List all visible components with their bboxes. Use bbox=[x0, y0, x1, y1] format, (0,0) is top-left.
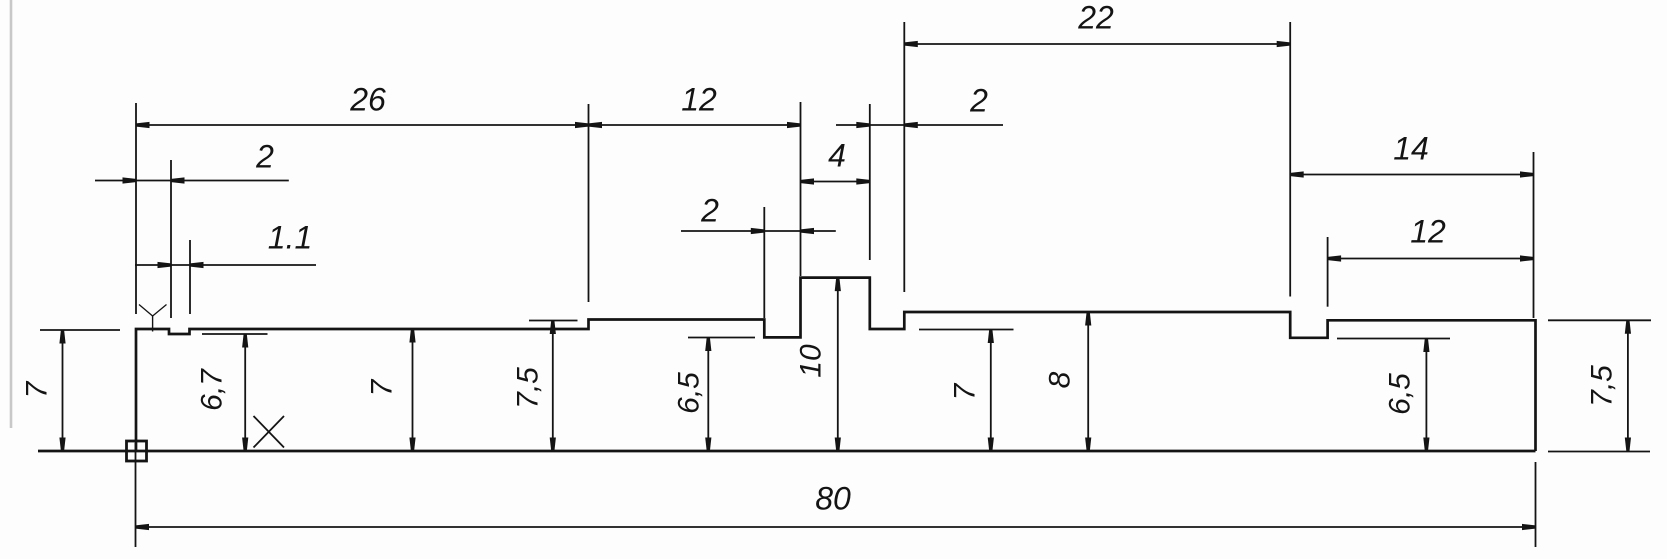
svg-text:12: 12 bbox=[681, 82, 717, 118]
dimension 6.7 bbox=[195, 334, 248, 451]
extension line x190 bbox=[189, 240, 191, 314]
svg-text:7,5: 7,5 bbox=[1585, 365, 1618, 407]
dimension 8 bbox=[1043, 312, 1091, 451]
svg-text:8: 8 bbox=[1043, 371, 1076, 388]
extension line x171 bbox=[170, 160, 172, 318]
surface mark Y bbox=[139, 305, 167, 332]
extension line x870 bbox=[869, 104, 871, 260]
dimension 2 middle bbox=[681, 193, 836, 235]
extension line x904 bbox=[903, 22, 905, 292]
svg-text:7,5: 7,5 bbox=[511, 367, 544, 409]
surface mark X bbox=[254, 416, 285, 448]
extension line for dim 7.5 right bottom bbox=[1548, 451, 1650, 453]
svg-text:7: 7 bbox=[20, 380, 53, 398]
svg-text:7: 7 bbox=[948, 382, 981, 400]
extension line x800 bbox=[800, 102, 802, 276]
dimension 6.5 right bbox=[1383, 339, 1429, 452]
extension line for dim 7.5 left bbox=[529, 320, 578, 322]
dimension 2 top middle bbox=[836, 83, 1003, 129]
svg-text:22: 22 bbox=[1077, 0, 1114, 36]
extension line x588 bbox=[588, 104, 590, 302]
dimension 7 left bbox=[20, 330, 65, 451]
svg-text:4: 4 bbox=[828, 138, 846, 174]
dimension 14 bbox=[1290, 131, 1533, 178]
extension line x1290 bbox=[1289, 22, 1291, 297]
dimension 7.5 right bbox=[1585, 320, 1631, 451]
baseline bottom edge bbox=[38, 450, 1536, 453]
dimension 7 middle bbox=[365, 329, 415, 451]
dimension 10 bbox=[794, 278, 841, 451]
extension line x1327 bbox=[1327, 237, 1329, 307]
dimension 22 bbox=[904, 0, 1290, 47]
dimension 1.1 bbox=[135, 220, 316, 269]
extension line for dim 6.7 bbox=[202, 333, 268, 335]
svg-text:2: 2 bbox=[255, 139, 274, 175]
svg-text:2: 2 bbox=[969, 83, 988, 119]
svg-text:26: 26 bbox=[349, 82, 386, 118]
svg-text:6,7: 6,7 bbox=[195, 368, 228, 411]
svg-text:10: 10 bbox=[794, 344, 827, 378]
scan artifact gray line at left edge bbox=[10, 0, 13, 428]
extension line for dim 6.5 right bbox=[1337, 338, 1450, 340]
svg-text:14: 14 bbox=[1393, 131, 1429, 167]
extension line left edge up bbox=[135, 103, 137, 314]
svg-text:80: 80 bbox=[815, 481, 851, 517]
extension line x764 bbox=[763, 207, 765, 318]
extension line right edge up bbox=[1533, 152, 1535, 318]
svg-text:1.1: 1.1 bbox=[268, 220, 312, 256]
part profile outline bbox=[136, 278, 1536, 451]
svg-text:6,5: 6,5 bbox=[672, 372, 705, 414]
dimension 26 bbox=[136, 82, 589, 129]
extension line for dim 7 left bbox=[40, 329, 120, 331]
svg-text:6,5: 6,5 bbox=[1383, 373, 1416, 415]
dimension 6.5 left bbox=[672, 338, 711, 452]
dimension 80 bbox=[136, 481, 1536, 531]
extension line for dim 6.5 left bbox=[688, 337, 755, 339]
extension line right edge down bbox=[1535, 462, 1537, 547]
extension line for dim 7.5 right top bbox=[1548, 319, 1651, 321]
dimension 2 top left bbox=[95, 139, 289, 184]
svg-text:2: 2 bbox=[700, 193, 719, 229]
extension line left edge down bbox=[135, 443, 137, 547]
dimension 12 top bbox=[589, 82, 801, 129]
svg-text:7: 7 bbox=[365, 378, 398, 396]
svg-text:12: 12 bbox=[1410, 214, 1446, 250]
extension line for dim 7 right of boss bbox=[919, 329, 1014, 331]
dimension 7.5 left bbox=[511, 321, 556, 452]
dimension 12 right bbox=[1328, 214, 1534, 262]
dimension 4 bbox=[801, 138, 870, 185]
dimension 7 right of boss bbox=[948, 330, 994, 452]
datum square symbol bbox=[127, 441, 147, 461]
